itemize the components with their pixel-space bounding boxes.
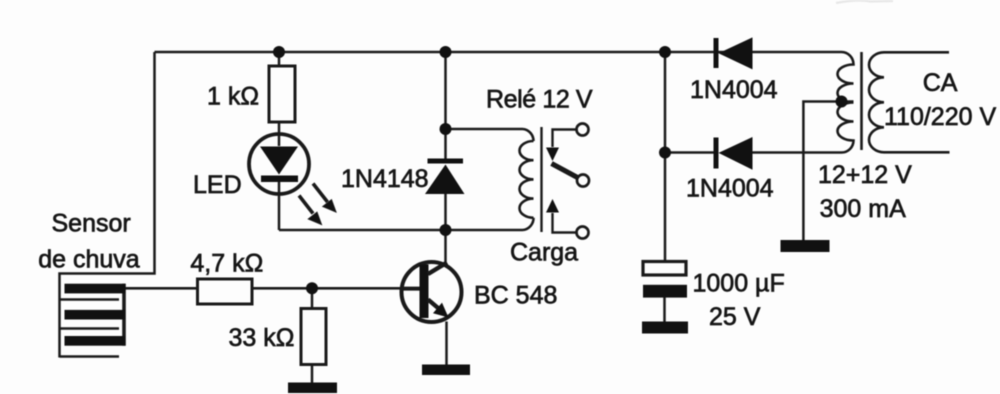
transistor Q1 BC548 circle: [402, 262, 462, 322]
relay core bar: [540, 127, 542, 232]
wire top +V rail: [155, 51, 842, 54]
LED circle: [249, 134, 309, 194]
wire Q1 emitter to ground: [445, 322, 448, 365]
node rail-bridge: [659, 46, 671, 58]
resistor R2 4,7 kOhm: [198, 279, 253, 304]
wire LED cathode down: [278, 182, 281, 230]
diode D1 1N4148 cathode bar: [428, 159, 464, 164]
node rail-D1: [440, 46, 452, 58]
relay contact arrow up: [546, 199, 559, 213]
LED arrow 1: [313, 184, 336, 213]
wire left drop to sensor: [60, 52, 155, 358]
svg-text:1 kΩ: 1 kΩ: [207, 83, 259, 111]
svg-text:300 mA: 300 mA: [820, 195, 906, 223]
sensor comb bar 2: [65, 310, 126, 320]
svg-text:33 kΩ: 33 kΩ: [229, 324, 295, 352]
svg-text:25 V: 25 V: [709, 303, 761, 331]
transistor Q1 emitter stroke: [428, 300, 441, 311]
wire relay coil top: [446, 128, 524, 131]
wire node to D3: [665, 151, 714, 154]
node D1 top: [440, 123, 452, 135]
ground under Q1: [422, 365, 470, 376]
sensor comb bar 1: [65, 284, 126, 294]
capacitor C1 top plate: [643, 262, 686, 276]
wire bottom run LED to relay coil: [279, 229, 523, 232]
svg-text:12+12 V: 12+12 V: [818, 161, 912, 189]
diode D3 1N4004 bottom cathode bar: [714, 138, 719, 169]
relay terminal circle bottom: [577, 227, 589, 239]
diode D2 1N4004 top cathode bar: [714, 38, 719, 68]
node center tap: [836, 96, 848, 108]
ground under transformer tap: [781, 240, 830, 252]
svg-text:4,7 kΩ: 4,7 kΩ: [190, 250, 263, 278]
svg-text:110/220 V: 110/220 V: [884, 103, 996, 131]
transformer T1 primary winding: [869, 52, 950, 152]
wire R3 to ground: [311, 365, 314, 384]
svg-text:BC 548: BC 548: [474, 282, 557, 310]
node rail-R1: [273, 46, 285, 58]
svg-text:1000 µF: 1000 µF: [693, 270, 785, 298]
diode D1 1N4148 triangle: [425, 165, 465, 195]
relay terminal circle top: [577, 124, 589, 136]
wire rail to D2 D3 branch: [664, 52, 667, 262]
sensor comb left rail fingers: [60, 300, 120, 357]
wire D1 anode to bottom node: [444, 194, 447, 230]
ground under C1: [642, 322, 688, 334]
resistor R1 1 kOhm: [269, 66, 295, 122]
scan artifact top edge: [836, 1, 893, 3]
svg-text:de chuva: de chuva: [38, 245, 140, 273]
svg-text:1N4004: 1N4004: [690, 76, 778, 104]
node bridge lower: [659, 147, 671, 159]
ground under R3: [288, 383, 337, 394]
wire rail to R1: [278, 52, 281, 66]
wire R1 to LED: [278, 122, 281, 135]
transistor Q1 collector stroke: [428, 263, 447, 275]
wire D3 anode to transformer secondary bottom: [753, 151, 842, 154]
wire node down to R3: [311, 288, 314, 308]
capacitor C1 bottom plate: [643, 285, 687, 298]
svg-text:LED: LED: [193, 171, 242, 199]
diode D2 1N4004 top triangle: [719, 37, 753, 69]
transformer T1 core: [860, 52, 863, 150]
transistor Q1 base bar: [420, 265, 429, 319]
svg-text:Relé 12 V: Relé 12 V: [486, 86, 593, 114]
wire LED anode through circle: [278, 135, 281, 146]
wire sensor output to R2: [125, 287, 198, 290]
svg-text:Carga: Carga: [510, 239, 578, 267]
svg-text:1N4004: 1N4004: [686, 175, 774, 203]
wire R2 to base node to Q1 base: [252, 287, 420, 290]
node base divider: [306, 282, 318, 294]
svg-text:Sensor: Sensor: [52, 210, 131, 238]
sensor comb bar 3: [65, 336, 126, 346]
transistor Q1 emitter arrowhead: [433, 303, 449, 318]
wire C1 to ground: [663, 298, 666, 322]
svg-text:1N4148: 1N4148: [341, 165, 429, 193]
LED cathode bar: [261, 176, 298, 183]
diode D3 1N4004 bottom triangle: [719, 137, 753, 170]
relay contact common stub: [553, 130, 577, 148]
relay blade: [552, 164, 578, 178]
resistor R3 33 kOhm: [301, 309, 326, 365]
sensor comb right rail: [122, 284, 126, 346]
node D1 bottom: [440, 224, 452, 236]
relay contact bottom stub: [553, 213, 577, 233]
relay contact arrow down: [546, 148, 559, 162]
relay coil: [520, 129, 534, 230]
LED arrow 2: [299, 196, 322, 225]
relay terminal circle middle: [577, 175, 589, 187]
wire rail drop to D1 node: [444, 52, 447, 159]
LED triangle: [260, 147, 298, 175]
transformer T1 secondary winding: [838, 52, 854, 153]
svg-text:CA: CA: [923, 69, 958, 97]
wire Q1 collector: [444, 230, 447, 263]
wire center tap to ground: [803, 102, 853, 241]
